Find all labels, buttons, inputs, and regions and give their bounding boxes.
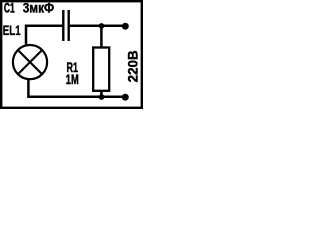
border frame bbox=[1, 1, 142, 108]
wire top-right bbox=[70, 25, 125, 28]
svg-text:С1: С1 bbox=[4, 2, 15, 16]
wire top-left bbox=[26, 26, 62, 45]
terminal top bbox=[122, 23, 129, 30]
wire resistor bottom bbox=[100, 91, 103, 97]
svg-text:3мкФ: 3мкФ bbox=[23, 0, 55, 16]
resistor R1 bbox=[93, 48, 109, 91]
wire lamp bottom bbox=[28, 79, 125, 96]
terminal bottom bbox=[122, 94, 129, 101]
svg-text:1М: 1М bbox=[66, 73, 79, 87]
node junction bottom bbox=[99, 94, 105, 100]
svg-text:EL1: EL1 bbox=[3, 24, 21, 39]
node junction top bbox=[99, 23, 105, 29]
wire resistor top bbox=[100, 26, 103, 48]
svg-text:220В: 220В bbox=[125, 50, 140, 82]
lamp EL1 bbox=[13, 45, 47, 79]
capacitor C1 bbox=[63, 10, 68, 41]
